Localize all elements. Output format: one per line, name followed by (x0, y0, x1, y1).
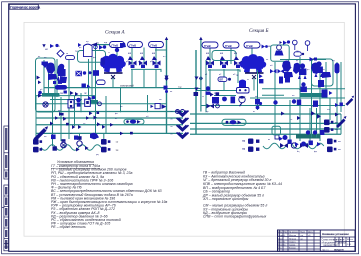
B robot cluster 3 (301, 82, 307, 92)
wire A seg y99 (50, 99, 82, 101)
svg-text:ит: ит (115, 118, 117, 120)
wire B top right box (271, 45, 290, 61)
svg-text:ГГмВ: ГГмВ (204, 44, 211, 48)
A mid cluster x74-88 (76, 71, 87, 76)
wire B riser x206 (205, 60, 207, 112)
wire A riser x92 (91, 54, 93, 100)
B mid blue block (239, 80, 246, 89)
wire A gas drop x69 (68, 57, 70, 88)
A mid components row y97-104 (64, 91, 91, 108)
A comp right of cylinder (99, 45, 106, 50)
title block lit cells text (336, 239, 354, 246)
B bottom right marks (335, 103, 343, 108)
A bottom squares pair 1 (33, 139, 42, 152)
tank T2 capsule (128, 42, 143, 48)
wire main header A4 (36, 132, 183, 134)
crown cluster A (100, 54, 126, 73)
thick teal bar B (296, 134, 320, 139)
extra teal segments (36, 45, 341, 138)
svg-text:ГВ: ГВ (242, 147, 245, 151)
B comp bottom right x255 (255, 99, 262, 109)
B right cluster 2 (311, 63, 331, 88)
wire B riser x290 (289, 100, 291, 140)
wire B right edge drop (340, 114, 342, 134)
title block horizontals left (278, 232, 321, 234)
A riser tick x166 (165, 76, 169, 80)
A pump box on line (124, 119, 144, 124)
wire B top loop (212, 51, 236, 61)
tank T6 capsule (244, 42, 260, 48)
thick teal bar B2 (301, 93, 322, 97)
wire A crown feed (112, 77, 114, 88)
svg-text:ГГмВ: ГГмВ (130, 43, 137, 47)
navy capsule A vert (101, 58, 106, 66)
center vert tips (165, 37, 203, 81)
wire A line y103 (36, 103, 166, 105)
svg-text:Лист: Лист (284, 232, 289, 234)
wire A riser x106 (105, 96, 107, 133)
center label pair (171, 111, 174, 136)
B labels scatter 2 (202, 58, 342, 151)
wire B riser x310 (309, 108, 311, 141)
svg-text:жт: жт (266, 59, 268, 61)
svg-text:вч: вч (318, 87, 320, 89)
svg-text:РЕ – обрат вентиль: РЕ – обрат вентиль (51, 225, 86, 229)
A comp x81-88 y83 (82, 84, 91, 89)
B tick top (283, 40, 317, 61)
svg-text:ХЛ – тормозные цилиндры: ХЛ – тормозные цилиндры (202, 197, 249, 201)
svg-text:тм: тм (116, 149, 119, 152)
thick teal bar A2 (87, 100, 98, 103)
B mid capsule 1 (218, 77, 227, 82)
svg-text:Подп: Подп (300, 232, 305, 234)
wire main header B4 (190, 133, 341, 135)
wire main header A1 (36, 111, 183, 113)
A diag arrow (34, 126, 49, 141)
wire B line y90 (196, 90, 248, 92)
wire main header A3 (36, 124, 183, 126)
wire A riser x95 (95, 82, 97, 133)
svg-text:Т.контр.: Т.контр. (278, 241, 286, 243)
svg-text:Петров: Петров (289, 238, 297, 240)
A gasline cap top bits (53, 81, 62, 85)
wire B riser x196 (195, 50, 197, 134)
wire A riser x74 (74, 96, 76, 126)
wire A riser x95 top (95, 46, 97, 84)
B left valves pair (270, 69, 290, 84)
A capsule x97-105 y80 (97, 80, 106, 85)
wire main header B1 (190, 113, 341, 115)
svg-text:Иванов: Иванов (289, 235, 297, 237)
B valve bodies (208, 65, 240, 69)
valve row A arrows (128, 56, 157, 60)
A loop left arrows (37, 76, 42, 85)
B valve connector (208, 70, 240, 72)
wire B line y59 (280, 59, 326, 61)
wire A small loop tank (78, 51, 106, 63)
wire A stubs below (35, 133, 37, 139)
svg-text:вс: вс (253, 111, 255, 113)
wire A riser x81 (80, 93, 82, 112)
svg-text:ГГмВ: ГГмВ (225, 44, 232, 48)
wire B line y105 (201, 105, 345, 107)
wire A line y95 (36, 95, 96, 97)
wire A top riser x44 (43, 60, 45, 96)
svg-text:Изм: Изм (278, 232, 282, 234)
svg-text:хн: хн (222, 97, 224, 99)
diamond valve A (57, 50, 64, 57)
svg-text:ГГмВ: ГГмВ (151, 43, 158, 47)
legend left column (51, 164, 167, 229)
B bowtie y101 (207, 92, 220, 108)
drawing area faint boundary (24, 22, 344, 236)
svg-text:дп: дп (63, 119, 65, 121)
svg-text:Схема пневматическ.: Схема пневматическ. (322, 240, 345, 242)
crown cluster B (240, 54, 266, 73)
svg-text:ч: ч (340, 239, 341, 241)
cylinder tank A (84, 44, 93, 57)
svg-text:гт: гт (108, 52, 110, 54)
center twin circles (176, 110, 185, 114)
tank T4 capsule (202, 42, 218, 48)
svg-text:Козлов: Козлов (289, 247, 297, 249)
svg-text:шк: шк (120, 106, 123, 108)
svg-text:нс: нс (47, 69, 49, 71)
B mid flask (239, 96, 245, 106)
A gasline capsule (55, 85, 67, 90)
left margin cell column upper (4, 126, 9, 179)
B vert x200 stub (200, 40, 202, 112)
svg-text:Секция Б: Секция Б (249, 29, 269, 34)
B top right tank (275, 41, 284, 56)
crown A bar (104, 72, 123, 74)
B right small circle (293, 40, 310, 51)
svg-text:Смирн.: Смирн. (289, 241, 296, 243)
A mid xbox right (89, 70, 100, 76)
B mid components (212, 97, 235, 104)
wire B riser x341 (340, 62, 342, 112)
wire B line y98 (250, 97, 345, 99)
A bottom squares pair 2 (101, 139, 110, 152)
wire B line y88 (262, 88, 345, 90)
svg-text:ГГмВ: ГГмВ (246, 44, 253, 48)
A riser junction comp (164, 86, 169, 93)
B labels scatter (206, 45, 315, 95)
crown A x-mark (111, 75, 115, 79)
svg-text:Утв.: Утв. (278, 247, 282, 249)
svg-text:Секция А: Секция А (105, 31, 126, 36)
wire main header A2 (36, 117, 183, 119)
A header marks 1 (59, 112, 66, 121)
wire B capsule stems (209, 48, 211, 64)
B bottom valve circle group (280, 143, 308, 148)
B bottom squares pair r2 (327, 139, 336, 153)
svg-text:Горячая вс ворота: Горячая вс ворота (10, 5, 41, 9)
wire main header B2 (190, 122, 341, 124)
svg-text:Название установки: Название установки (322, 232, 349, 236)
A circle on thick bar (38, 91, 42, 95)
wire A riser x61 (60, 97, 62, 133)
small box on line A (151, 104, 167, 110)
A header marks 2 (89, 111, 99, 119)
A bottom circleX (61, 139, 67, 148)
B comps above thick bar (306, 130, 325, 135)
wire A riser x88 (88, 59, 90, 104)
valve row A1 (129, 61, 161, 66)
B comps left of bar (275, 135, 292, 144)
center squares pair (242, 139, 259, 152)
B riser arrows (194, 77, 199, 97)
A bottom assembly (76, 136, 89, 151)
B diag arrow (336, 116, 347, 128)
wire A valve stems to header (131, 69, 133, 88)
top-left stamp box (9, 4, 41, 9)
tank T3 capsule (149, 42, 164, 48)
B right vert capsule (335, 63, 340, 74)
pump cluster A right (57, 64, 67, 81)
title block left cell texts (278, 231, 313, 250)
valve row B (206, 61, 242, 66)
title block center text (322, 240, 346, 252)
B robot cluster 2 (314, 61, 323, 77)
wire B riser x326 (325, 62, 327, 98)
B right small box outline (272, 126, 281, 135)
left margin cell column lower (4, 185, 9, 251)
svg-text:жидоп: жидоп (333, 248, 344, 252)
wire A capsule stems (116, 48, 118, 57)
wire B riser x320 (319, 62, 321, 141)
wire A top connect (155, 49, 167, 51)
svg-text:газопровод: газопровод (120, 84, 134, 88)
wire A gas line (44, 87, 167, 89)
B comp right of crown (259, 74, 263, 83)
wire B riser x330 (329, 98, 331, 120)
wire A riser x52 (52, 96, 54, 133)
B small capsule top (294, 52, 301, 56)
A arrow on y95 line (38, 94, 42, 98)
B comp y89 (322, 90, 333, 98)
tank T5 capsule (223, 42, 239, 48)
svg-text:рн: рн (307, 69, 309, 71)
A circle x99 y103 (98, 102, 102, 106)
svg-text:Масса: Масса (347, 239, 354, 241)
wire B riser x300 (299, 57, 301, 141)
wire A riser x69 (68, 88, 70, 133)
wire A riser x120 (120, 88, 122, 112)
wire A riser x166 (166, 40, 168, 133)
title block left grid verticals (279, 230, 281, 251)
crown B x-mark (252, 75, 256, 79)
svg-text:№ докум.: № докум. (289, 231, 299, 234)
legend right column (202, 171, 282, 219)
thick teal bar A (42, 93, 60, 97)
A top arrow x44 (42, 44, 45, 47)
svg-text:дт: дт (296, 60, 298, 62)
B bottom squares pair r1 (324, 120, 333, 133)
wire A riser x147 (147, 95, 149, 112)
chevron stack (177, 111, 189, 139)
svg-text:ГГмВ: ГГмВ (112, 43, 119, 47)
svg-text:у: у (336, 239, 337, 241)
wire A top inlet (91, 43, 109, 47)
left margin rotated text marks (5, 128, 7, 249)
valve row B arrows (206, 56, 239, 60)
svg-text:шг: шг (170, 91, 173, 93)
A below-header blobs (51, 133, 99, 140)
B mid dotted box (237, 88, 250, 94)
A small icons center-bottom (116, 141, 119, 152)
svg-text:вн: вн (163, 56, 165, 58)
wire A left edge drop (35, 96, 37, 134)
wire B riser x275 (274, 62, 276, 134)
B riser x257 (257, 70, 259, 110)
title block outline (278, 230, 356, 251)
tank T1 capsule (110, 42, 125, 48)
B right pencil 2 (346, 96, 355, 106)
wire B bottom wavy (263, 143, 324, 149)
A arrows y91 (70, 91, 78, 96)
wire A bottom wavy (41, 145, 101, 151)
A comp cluster above thickbar2 (88, 96, 95, 101)
svg-text:из: из (268, 139, 270, 141)
wire B seg y95 (214, 95, 236, 97)
A valve connector (131, 69, 161, 72)
crown B bar (245, 72, 264, 74)
wire B crown feed (253, 77, 255, 91)
wire B valve stems (209, 69, 211, 91)
svg-text:Пров.: Пров. (278, 238, 284, 240)
svg-text:вагонов) Лист: вагонов) Лист (324, 245, 340, 247)
B comps bottom row y100 (273, 99, 318, 107)
svg-text:рп: рп (79, 47, 81, 49)
A labels scatter (45, 42, 156, 95)
wire center bridge (167, 88, 202, 90)
svg-text:Разраб.: Разраб. (278, 235, 286, 237)
svg-text:ВП: ВП (220, 79, 224, 82)
capsule A mid (66, 56, 75, 60)
B pump box on line (222, 119, 246, 125)
component block A center (115, 43, 126, 52)
svg-text:ущ: ущ (96, 154, 99, 156)
A top comp near cylinder (78, 43, 97, 49)
wire B riser x311 (311, 60, 313, 138)
pump cluster A left (46, 63, 67, 84)
svg-text:цк: цк (301, 238, 303, 240)
svg-text:пс: пс (290, 67, 292, 69)
A circleX in loop (43, 102, 48, 107)
wire A top riser x48 (48, 64, 50, 93)
A top-left arrow comp (50, 44, 59, 48)
svg-text:Лист 1: Лист 1 (322, 249, 329, 251)
svg-text:ыэ: ыэ (327, 109, 330, 111)
title block center/right dividers (320, 236, 355, 238)
A labels row2 (44, 41, 149, 120)
svg-text:СПВ – стоп типографитофузельны: СПВ – стоп типографитофузельных (203, 215, 267, 219)
wire A riser x57 (56, 59, 58, 97)
svg-text:кс: кс (247, 79, 249, 81)
B crossing arrows top headers (281, 111, 339, 120)
B comp mid x206 (206, 86, 211, 95)
B comps after capsule3 (262, 45, 268, 49)
B below bar comps (295, 141, 321, 147)
B robot cluster 1 (298, 63, 307, 79)
svg-text:пж: пж (60, 92, 63, 95)
svg-text:ГВ: ГВ (242, 139, 245, 143)
wire B right loop (312, 59, 334, 86)
left border centering mark (2, 207, 4, 209)
svg-text:Н.контр.: Н.контр. (278, 244, 286, 246)
B right pump cluster (282, 61, 300, 79)
wire B riser x337 (336, 62, 338, 134)
svg-text:чф: чф (311, 105, 314, 108)
A header marks 3 (50, 122, 105, 130)
A valve bodies (131, 65, 159, 69)
A bottom comp small (53, 146, 57, 150)
svg-text:Сидор.: Сидор. (289, 244, 296, 246)
A header marks 4 (55, 116, 133, 135)
wire B riser x316 (316, 108, 318, 138)
wire main header B3 (190, 128, 341, 130)
B mid circle (228, 78, 231, 81)
A valve actuator left of loop (42, 62, 49, 69)
wire A loop rounded (36, 58, 56, 112)
speckle labels scatter (38, 47, 330, 156)
